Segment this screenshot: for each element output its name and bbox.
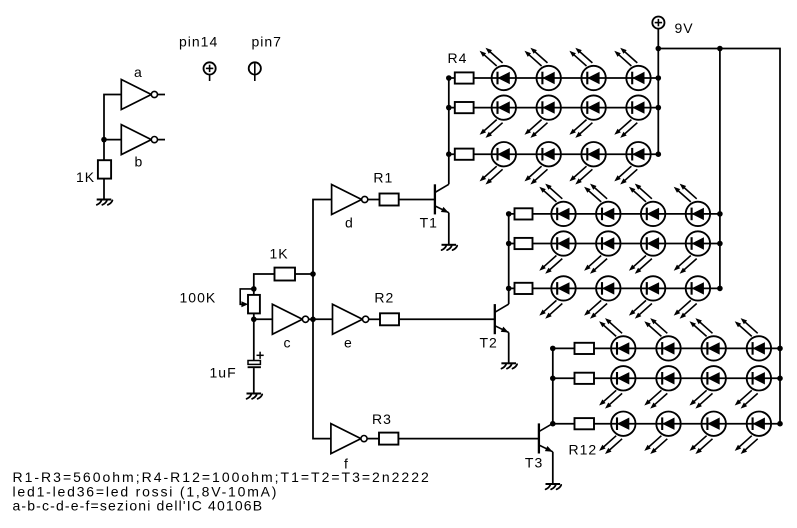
svg-text:T1: T1: [420, 215, 438, 231]
LED led1: [480, 48, 516, 90]
LED led20: [674, 231, 710, 273]
wire matrix1 row 3: [449, 153, 659, 155]
LED led15: [629, 184, 665, 227]
LED led4: [614, 48, 650, 90]
wire vertical bus from inverter c output: [313, 200, 332, 439]
node matrix1 row 1 right: [656, 75, 662, 81]
resistor matrix1 row 2: [455, 102, 474, 113]
wire T1 collector to matrix 1 left rail: [448, 78, 450, 184]
svg-text:pin14: pin14: [179, 34, 218, 50]
wire input net to inverters a and b: [104, 95, 121, 161]
ground: [546, 484, 562, 489]
node matrix3 row 1 right: [777, 346, 783, 352]
LED led35: [690, 412, 726, 455]
wire T2 emitter to ground: [508, 333, 510, 364]
ground: [501, 363, 517, 368]
wire R1 to T1 base: [399, 199, 435, 201]
LED led5: [480, 95, 516, 137]
resistor matrix2 row 2: [515, 238, 533, 249]
LED led11: [569, 142, 605, 185]
wire d output to R1: [368, 199, 380, 201]
node bus-c-output junction: [310, 317, 316, 323]
wire matrix2 row 2: [509, 243, 720, 245]
wire pot junction to inverter c input: [254, 318, 273, 320]
wire matrix3 row 2: [553, 377, 780, 379]
LED led32: [735, 366, 771, 409]
wire matrix3 row 3: [553, 423, 780, 425]
node 9V rail junction: [656, 46, 662, 52]
ground: [97, 200, 113, 205]
node matrix3 row 3 right: [777, 421, 783, 427]
resistor R3: [379, 433, 398, 445]
wire 1K to ground: [103, 179, 105, 200]
resistor matrix3 row 1: [575, 343, 595, 354]
wire matrix2 right rail: [719, 49, 721, 289]
LED led24: [674, 276, 710, 319]
resistor 1K (feedback): [275, 268, 296, 281]
LED led7: [569, 95, 605, 137]
potentiometer 100K: [240, 289, 260, 319]
transistor T3: [539, 423, 553, 453]
node matrix1 row 3 right: [656, 151, 662, 157]
node matrix3 row 2 right: [777, 376, 783, 382]
LED led13: [539, 184, 575, 227]
node matrix2 row 1 right: [717, 211, 723, 217]
inverter a: [121, 80, 157, 110]
svg-text:R2: R2: [374, 290, 394, 306]
node matrix2 row 3 left: [506, 286, 512, 292]
LED led19: [629, 231, 665, 273]
LED led8: [614, 95, 650, 137]
node bus-1K junction: [310, 271, 316, 277]
node junction a-b-1K: [101, 137, 107, 143]
resistor R2: [380, 313, 399, 325]
wire R3 to T3 base: [398, 438, 539, 440]
inverter e: [333, 304, 369, 334]
svg-text:1K: 1K: [270, 246, 289, 262]
wire inverter b input: [104, 139, 121, 141]
LED led22: [584, 276, 620, 319]
LED led3: [569, 48, 605, 90]
resistor matrix2 row 3: [515, 283, 533, 294]
wire T1 emitter to ground: [448, 213, 450, 245]
LED led9: [480, 142, 516, 185]
wire matrix3 left rail: [552, 348, 554, 423]
node matrix2 row 2 right: [717, 241, 723, 247]
wire T2 collector to matrix 2 left rail: [508, 288, 510, 304]
svg-text:1K: 1K: [76, 169, 95, 185]
LED led12: [614, 142, 650, 185]
wire matrix2 row 1: [509, 213, 720, 215]
LED led27: [690, 318, 726, 361]
LED led33: [599, 412, 635, 455]
resistor matrix1 row 3: [455, 149, 474, 160]
wire 1K feedback left to pot top: [254, 274, 275, 289]
wire matrix3 row 1: [553, 347, 780, 349]
wire matrix2 left rail: [508, 214, 510, 289]
svg-text:a: a: [134, 64, 143, 80]
svg-text:e: e: [344, 335, 353, 351]
wire matrix1 row 1: [449, 77, 659, 79]
node top rail - matrix2 rail junction: [717, 46, 723, 52]
LED led17: [539, 231, 575, 273]
ground: [442, 245, 458, 250]
node pot top junction: [251, 286, 257, 292]
svg-text:T2: T2: [480, 335, 498, 351]
LED led29: [599, 366, 635, 409]
LED led31: [690, 366, 726, 409]
wire inverter e input: [313, 318, 333, 320]
wire e output to R2: [369, 318, 380, 320]
LED led30: [644, 366, 680, 409]
wire matrix2 row 3: [509, 287, 720, 289]
wire cap bottom to ground: [253, 368, 255, 393]
svg-text:pin7: pin7: [252, 34, 282, 50]
node matrix2 row 3 right: [717, 286, 723, 292]
svg-text:R3: R3: [372, 411, 392, 427]
resistor matrix1 row 1: [455, 72, 474, 83]
node matrix3 row 3 left: [550, 421, 556, 427]
wire R2 to T2 base: [399, 318, 495, 320]
wire inverter b output stub: [158, 139, 166, 141]
svg-text:R4: R4: [448, 50, 468, 66]
inverter d: [332, 185, 368, 215]
resistor matrix2 row 1: [515, 208, 533, 219]
node matrix2 row 1 left: [506, 211, 512, 217]
wire T3 emitter to ground: [552, 452, 554, 484]
node matrix1 row 2 left: [446, 105, 452, 111]
wire matrix1 row 2: [449, 107, 659, 109]
node matrix3 row 2 left: [550, 376, 556, 382]
LED led18: [584, 231, 620, 273]
svg-text:1uF: 1uF: [210, 365, 237, 381]
LED led28: [735, 318, 771, 361]
wire inverter c output to bus: [309, 318, 313, 320]
node pot bottom - cap - c input junction: [251, 317, 257, 323]
node matrix3 row 1 left: [550, 346, 556, 352]
LED led16: [674, 184, 710, 227]
svg-text:T3: T3: [525, 455, 543, 471]
wire 1K feedback right: [295, 273, 313, 275]
LED led14: [584, 184, 620, 227]
wire top rail: [658, 49, 780, 424]
LED led10: [525, 142, 561, 185]
ground: [247, 394, 263, 399]
resistor matrix3 row 2: [575, 373, 595, 384]
resistor 1K (pull-down): [98, 160, 111, 178]
LED led23: [629, 276, 665, 319]
svg-text:100K: 100K: [180, 290, 217, 306]
node matrix1 row 2 right: [656, 105, 662, 111]
LED led2: [525, 48, 561, 90]
wire f output to R3: [367, 438, 379, 440]
power 9V terminal: [652, 17, 664, 29]
resistor R1: [380, 194, 399, 206]
transistor T1: [435, 184, 449, 214]
inverter f: [331, 424, 367, 454]
LED led36: [735, 412, 771, 455]
inverter b: [121, 125, 157, 155]
node matrix1 row 1 left: [446, 75, 452, 81]
svg-text:R1: R1: [373, 170, 393, 186]
wire inverter a output stub: [158, 94, 166, 96]
LED led26: [644, 318, 680, 361]
node matrix2 row 2 left: [506, 241, 512, 247]
pin7 ground pin symbol: [249, 62, 261, 81]
wire 9V stem: [657, 29, 659, 49]
LED led21: [539, 276, 575, 319]
LED led34: [644, 412, 680, 455]
svg-text:d: d: [345, 215, 354, 231]
pin14 supply pin symbol: [204, 62, 216, 81]
LED led25: [599, 318, 635, 361]
wire cap top: [253, 319, 255, 360]
node matrix1 row 3 left: [446, 151, 452, 157]
LED led6: [525, 95, 561, 137]
svg-text:c: c: [284, 335, 292, 351]
capacitor 1uF: [248, 352, 264, 368]
svg-text:b: b: [135, 154, 144, 170]
svg-text:R12: R12: [569, 442, 598, 458]
wire matrix1 right rail: [657, 49, 659, 155]
transistor T2: [495, 304, 509, 334]
svg-text:9V: 9V: [675, 20, 694, 36]
inverter c: [272, 304, 308, 334]
resistor matrix3 row 3: [575, 418, 595, 429]
svg-text:a-b-c-d-e-f=sezioni dell'IC 40: a-b-c-d-e-f=sezioni dell'IC 40106B: [13, 498, 264, 514]
